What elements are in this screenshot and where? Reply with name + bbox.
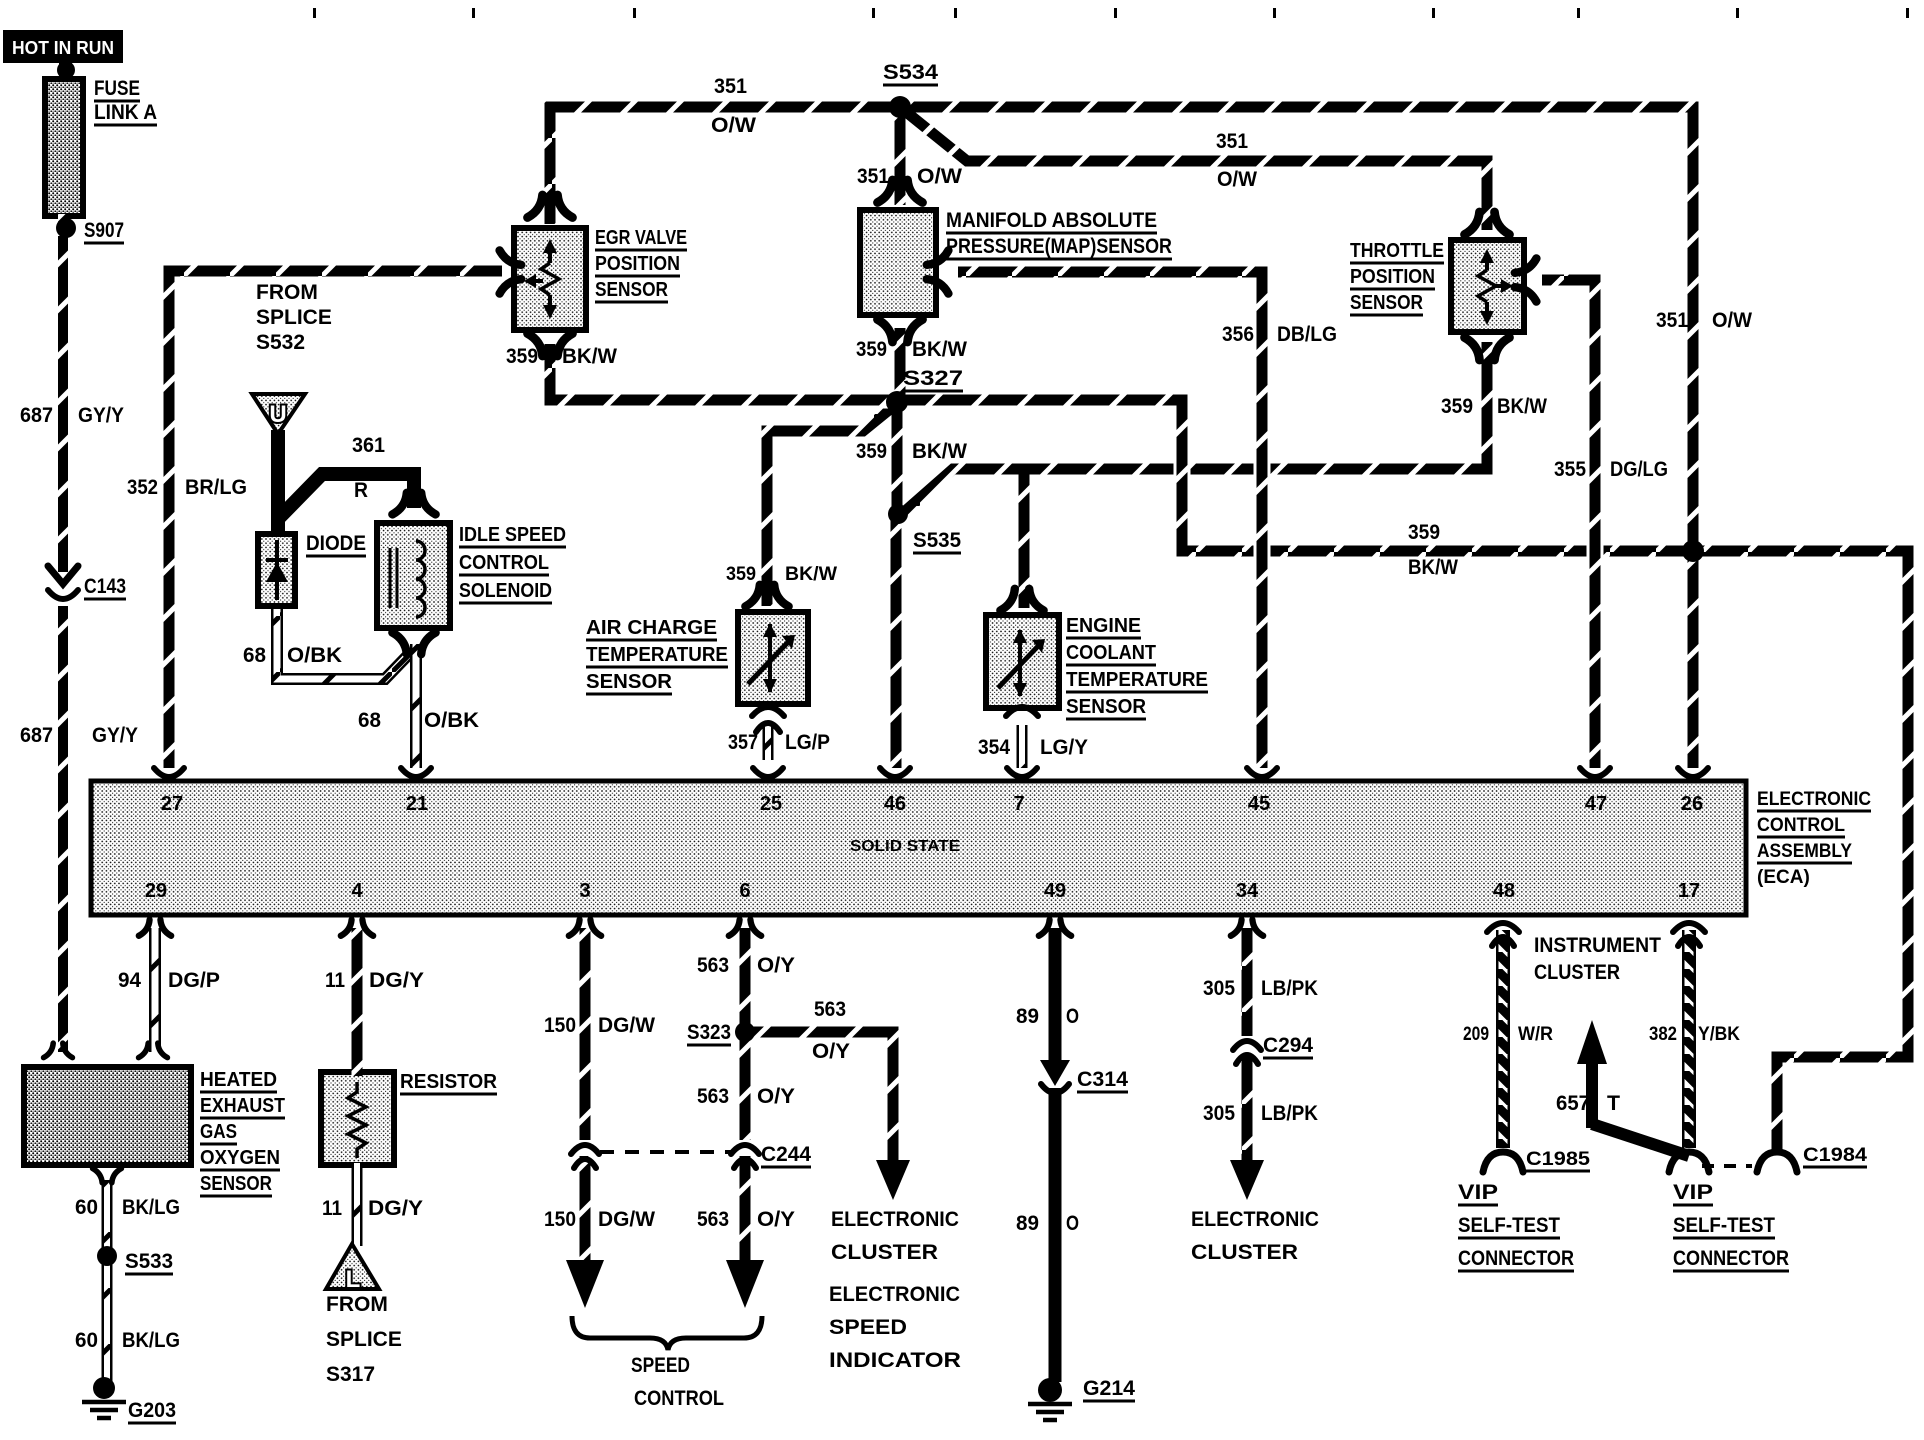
- svg-text:LINK A: LINK A: [94, 101, 157, 124]
- svg-text:IDLE SPEED: IDLE SPEED: [459, 524, 566, 546]
- svg-text:SOLID STATE: SOLID STATE: [850, 838, 960, 855]
- svg-text:HEATED: HEATED: [200, 1069, 277, 1091]
- svg-text:357: 357: [728, 731, 758, 754]
- svg-text:BK/W: BK/W: [785, 564, 837, 585]
- svg-text:657: 657: [1556, 1092, 1590, 1115]
- svg-text:SOLENOID: SOLENOID: [459, 580, 552, 602]
- svg-text:DG/LG: DG/LG: [1610, 458, 1668, 481]
- svg-text:O/W: O/W: [711, 114, 756, 137]
- svg-text:CONTROL: CONTROL: [459, 552, 549, 574]
- svg-text:ELECTRONIC: ELECTRONIC: [831, 1208, 959, 1231]
- svg-text:S907: S907: [84, 219, 124, 242]
- svg-text:6: 6: [739, 880, 750, 902]
- svg-text:46: 46: [884, 793, 906, 815]
- svg-text:359: 359: [1441, 395, 1473, 418]
- svg-text:26: 26: [1681, 793, 1703, 815]
- svg-text:25: 25: [760, 793, 782, 815]
- svg-text:C1984: C1984: [1803, 1145, 1867, 1166]
- svg-text:68: 68: [358, 709, 381, 732]
- svg-text:ENGINE: ENGINE: [1066, 615, 1141, 637]
- svg-text:SPEED: SPEED: [631, 1354, 690, 1377]
- svg-text:O/BK: O/BK: [424, 709, 479, 732]
- svg-text:C314: C314: [1077, 1068, 1128, 1091]
- svg-text:11: 11: [322, 1197, 342, 1220]
- svg-text:TEMPERATURE: TEMPERATURE: [586, 644, 728, 666]
- svg-text:305: 305: [1203, 1102, 1235, 1125]
- svg-text:DG/W: DG/W: [598, 1014, 655, 1037]
- svg-text:49: 49: [1044, 880, 1066, 902]
- svg-text:EGR VALVE: EGR VALVE: [595, 227, 687, 249]
- svg-text:DG/Y: DG/Y: [368, 1197, 423, 1220]
- svg-text:BK/W: BK/W: [1408, 556, 1458, 579]
- svg-text:TEMPERATURE: TEMPERATURE: [1066, 669, 1208, 691]
- svg-text:C294: C294: [1263, 1034, 1313, 1057]
- svg-text:CONTROL: CONTROL: [634, 1387, 724, 1410]
- svg-text:BK/LG: BK/LG: [122, 1196, 180, 1219]
- svg-text:S534: S534: [883, 61, 938, 84]
- svg-text:ASSEMBLY: ASSEMBLY: [1757, 841, 1852, 862]
- svg-text:89: 89: [1016, 1212, 1039, 1235]
- svg-text:THROTTLE: THROTTLE: [1350, 240, 1444, 262]
- svg-text:354: 354: [978, 736, 1010, 759]
- svg-text:CLUSTER: CLUSTER: [831, 1241, 938, 1264]
- svg-text:17: 17: [1678, 880, 1700, 902]
- svg-text:68: 68: [243, 644, 266, 667]
- svg-text:C244: C244: [761, 1143, 811, 1166]
- svg-text:GY/Y: GY/Y: [92, 724, 138, 747]
- svg-text:GY/Y: GY/Y: [78, 404, 124, 427]
- svg-text:361: 361: [352, 434, 385, 457]
- svg-text:POSITION: POSITION: [595, 253, 680, 275]
- svg-text:SELF-TEST: SELF-TEST: [1458, 1214, 1560, 1237]
- svg-text:SENSOR: SENSOR: [1066, 696, 1147, 718]
- svg-text:351: 351: [714, 75, 747, 98]
- svg-text:563: 563: [697, 1085, 729, 1108]
- svg-text:O/Y: O/Y: [757, 1085, 795, 1108]
- svg-text:GAS: GAS: [200, 1121, 237, 1143]
- svg-text:AIR CHARGE: AIR CHARGE: [586, 617, 717, 639]
- svg-text:S327: S327: [903, 367, 963, 390]
- svg-text:BK/W: BK/W: [912, 338, 967, 361]
- svg-text:INDICATOR: INDICATOR: [829, 1349, 961, 1372]
- svg-text:BK/W: BK/W: [1497, 395, 1547, 418]
- svg-text:382: 382: [1649, 1024, 1677, 1045]
- svg-text:DG/W: DG/W: [598, 1208, 655, 1231]
- svg-text:W/R: W/R: [1518, 1024, 1553, 1045]
- svg-text:G203: G203: [128, 1399, 176, 1422]
- svg-text:7: 7: [1013, 793, 1024, 815]
- svg-text:355: 355: [1554, 458, 1586, 481]
- svg-text:351: 351: [857, 165, 889, 188]
- svg-text:CLUSTER: CLUSTER: [1534, 961, 1620, 984]
- svg-text:O/W: O/W: [1712, 309, 1752, 332]
- svg-text:3: 3: [579, 880, 590, 902]
- svg-text:150: 150: [544, 1014, 576, 1037]
- svg-text:POSITION: POSITION: [1350, 266, 1435, 288]
- svg-text:INSTRUMENT: INSTRUMENT: [1534, 934, 1661, 957]
- svg-text:S533: S533: [125, 1250, 173, 1273]
- svg-text:359: 359: [726, 564, 756, 585]
- svg-text:CLUSTER: CLUSTER: [1191, 1241, 1298, 1264]
- svg-text:DG/Y: DG/Y: [369, 969, 424, 992]
- svg-text:COOLANT: COOLANT: [1066, 642, 1156, 664]
- svg-text:O/Y: O/Y: [757, 954, 795, 977]
- svg-text:21: 21: [406, 793, 428, 815]
- svg-text:LB/PK: LB/PK: [1261, 977, 1318, 1000]
- svg-text:RESISTOR: RESISTOR: [400, 1071, 498, 1093]
- svg-text:89: 89: [1016, 1005, 1039, 1028]
- svg-text:O/Y: O/Y: [812, 1040, 850, 1063]
- svg-text:209: 209: [1463, 1024, 1489, 1045]
- svg-text:R: R: [354, 479, 368, 502]
- svg-text:DG/P: DG/P: [168, 969, 220, 992]
- svg-text:359: 359: [1408, 521, 1440, 544]
- svg-text:SPEED: SPEED: [829, 1316, 907, 1339]
- svg-text:L: L: [346, 1266, 361, 1293]
- svg-text:O/Y: O/Y: [757, 1208, 795, 1231]
- svg-text:45: 45: [1248, 793, 1270, 815]
- svg-text:34: 34: [1236, 880, 1259, 902]
- svg-text:359: 359: [506, 345, 538, 368]
- svg-text:LG/Y: LG/Y: [1040, 736, 1088, 759]
- svg-text:ELECTRONIC: ELECTRONIC: [829, 1283, 960, 1306]
- svg-text:DB/LG: DB/LG: [1277, 323, 1337, 346]
- svg-text:563: 563: [697, 954, 729, 977]
- svg-text:29: 29: [145, 880, 167, 902]
- svg-text:T: T: [1607, 1092, 1620, 1115]
- svg-text:O: O: [1066, 1005, 1079, 1028]
- svg-text:60: 60: [75, 1196, 98, 1219]
- svg-text:PRESSURE(MAP)SENSOR: PRESSURE(MAP)SENSOR: [946, 235, 1172, 258]
- svg-text:SENSOR: SENSOR: [586, 671, 673, 693]
- svg-text:CONNECTOR: CONNECTOR: [1673, 1247, 1789, 1270]
- svg-text:ELECTRONIC: ELECTRONIC: [1757, 789, 1871, 810]
- svg-text:4: 4: [351, 880, 363, 902]
- svg-text:VIP: VIP: [1458, 1181, 1498, 1204]
- svg-text:FUSE: FUSE: [94, 77, 140, 100]
- svg-text:SPLICE: SPLICE: [256, 306, 332, 329]
- svg-text:S535: S535: [913, 529, 961, 552]
- svg-text:563: 563: [814, 998, 846, 1021]
- svg-text:SENSOR: SENSOR: [1350, 292, 1423, 314]
- svg-text:VIP: VIP: [1673, 1181, 1713, 1204]
- svg-text:ELECTRONIC: ELECTRONIC: [1191, 1208, 1319, 1231]
- svg-text:O/W: O/W: [1217, 168, 1257, 191]
- svg-text:FROM: FROM: [326, 1293, 388, 1316]
- svg-text:G214: G214: [1083, 1377, 1135, 1400]
- svg-text:U: U: [269, 401, 286, 428]
- svg-text:EXHAUST: EXHAUST: [200, 1095, 285, 1117]
- svg-text:CONTROL: CONTROL: [1757, 815, 1845, 836]
- svg-text:C143: C143: [84, 575, 126, 598]
- svg-text:LG/P: LG/P: [785, 731, 830, 754]
- svg-text:60: 60: [75, 1329, 98, 1352]
- svg-text:BK/W: BK/W: [912, 440, 967, 463]
- svg-text:563: 563: [697, 1208, 729, 1231]
- svg-text:359: 359: [856, 338, 887, 361]
- svg-text:305: 305: [1203, 977, 1235, 1000]
- svg-text:Y/BK: Y/BK: [1698, 1024, 1740, 1045]
- svg-text:BR/LG: BR/LG: [185, 476, 247, 499]
- svg-text:48: 48: [1493, 880, 1515, 902]
- svg-text:687: 687: [20, 724, 53, 747]
- svg-text:351: 351: [1656, 309, 1688, 332]
- svg-text:SPLICE: SPLICE: [326, 1328, 402, 1351]
- svg-text:LB/PK: LB/PK: [1261, 1102, 1318, 1125]
- svg-text:O/W: O/W: [917, 165, 962, 188]
- svg-text:O: O: [1066, 1212, 1079, 1235]
- svg-text:11: 11: [325, 969, 345, 992]
- svg-text:O/BK: O/BK: [287, 644, 342, 667]
- svg-text:94: 94: [118, 969, 141, 992]
- svg-text:S532: S532: [256, 331, 305, 354]
- svg-text:359: 359: [856, 440, 887, 463]
- svg-text:SENSOR: SENSOR: [595, 279, 668, 301]
- svg-text:S323: S323: [687, 1021, 731, 1044]
- svg-text:BK/LG: BK/LG: [122, 1329, 180, 1352]
- svg-text:(ECA): (ECA): [1757, 867, 1810, 888]
- svg-text:351: 351: [1216, 130, 1248, 153]
- svg-text:C1985: C1985: [1526, 1149, 1590, 1170]
- svg-text:FROM: FROM: [256, 281, 318, 304]
- svg-text:352: 352: [127, 476, 158, 499]
- svg-text:47: 47: [1585, 793, 1607, 815]
- svg-text:S317: S317: [326, 1363, 375, 1386]
- svg-text:687: 687: [20, 404, 53, 427]
- svg-text:27: 27: [161, 793, 183, 815]
- svg-text:150: 150: [544, 1208, 576, 1231]
- svg-text:356: 356: [1222, 323, 1254, 346]
- svg-text:SELF-TEST: SELF-TEST: [1673, 1214, 1775, 1237]
- svg-text:SENSOR: SENSOR: [200, 1173, 272, 1195]
- svg-text:DIODE: DIODE: [306, 532, 366, 555]
- svg-text:HOT IN RUN: HOT IN RUN: [12, 38, 114, 58]
- svg-text:BK/W: BK/W: [562, 345, 617, 368]
- svg-text:CONNECTOR: CONNECTOR: [1458, 1247, 1574, 1270]
- svg-text:OXYGEN: OXYGEN: [200, 1147, 280, 1169]
- svg-text:MANIFOLD ABSOLUTE: MANIFOLD ABSOLUTE: [946, 209, 1157, 232]
